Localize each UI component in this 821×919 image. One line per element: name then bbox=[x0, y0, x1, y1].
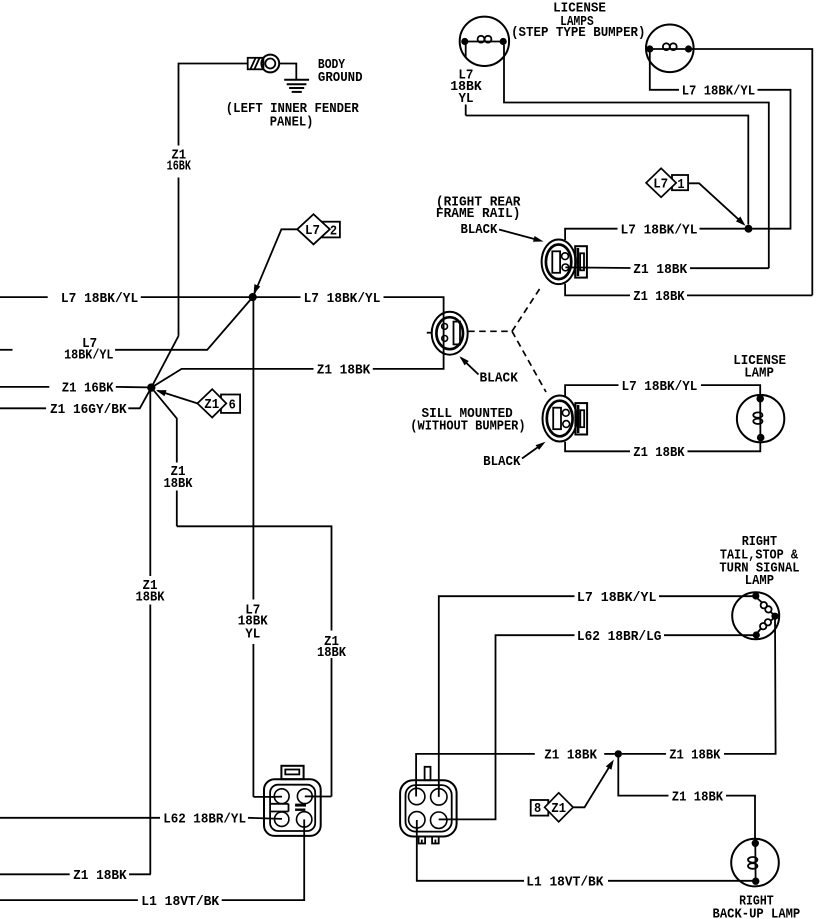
wire Z1 18BK left of splice bbox=[604, 753, 615, 755]
svg-text:18BK: 18BK bbox=[317, 645, 347, 661]
svg-text:L7 18BK/YL: L7 18BK/YL bbox=[304, 291, 381, 307]
wire L7 18BK/YL to connector (black) bbox=[384, 297, 444, 312]
connector symbol Z1>6 bbox=[197, 389, 240, 417]
connector sill mounted (oval 2-pin) bbox=[543, 396, 588, 442]
wire L7 18BK YL into 4-way connector left top pin bbox=[253, 796, 282, 798]
connector in-line (black, middle) oval 2-pin mirrored bbox=[427, 312, 468, 355]
wire L7 18BK/YL from turn signal lamp to left bbox=[659, 595, 753, 597]
arrow from BLACK to right rear frame rail connector bbox=[499, 230, 544, 242]
svg-text:Z1 18BK: Z1 18BK bbox=[633, 289, 685, 305]
svg-text:L7: L7 bbox=[653, 177, 668, 193]
label Z1 18BK on third vertical bbox=[317, 634, 347, 661]
wire stub Z1 into C2 top-left pin bbox=[415, 786, 417, 797]
lamp license left (step type bumper) bbox=[460, 17, 509, 66]
svg-text:Z1 18BK: Z1 18BK bbox=[73, 868, 127, 884]
wire L7 from left lamp across to right and down to splice bbox=[466, 116, 749, 225]
lamp license (rear) bbox=[737, 395, 784, 442]
label RIGHT TAIL,STOP & TURN SIGNAL LAMP bbox=[719, 534, 799, 589]
svg-text:16BK: 16BK bbox=[167, 159, 192, 175]
wire L62 18BR/LG from turn signal lamp bottom bbox=[664, 634, 754, 636]
svg-text:18BK: 18BK bbox=[136, 590, 166, 606]
svg-text:(STEP TYPE BUMPER): (STEP TYPE BUMPER) bbox=[511, 25, 645, 41]
svg-text:LAMP: LAMP bbox=[745, 573, 774, 589]
wire Z1 18BK to right edge vertical bbox=[687, 294, 812, 296]
svg-text:GROUND: GROUND bbox=[318, 70, 363, 86]
wire Z1 16BK vertical from body ground bbox=[179, 64, 248, 336]
wire Z1 18BK from splice down then right bbox=[618, 757, 668, 796]
label Z1 18BK on second vertical bbox=[164, 464, 194, 492]
wire L1 18VT/BK from connector bottom left pin bbox=[417, 820, 524, 881]
wire L7 18BK/YL 2-line label branch from left bbox=[0, 349, 13, 351]
label (LEFT INNER FENDER PANEL) bbox=[226, 101, 360, 130]
label Z1 18BK on vertical wire bbox=[136, 578, 166, 606]
wire stub L7 into C1 top-left pin bbox=[272, 796, 282, 798]
wire L7 18BK/YL from connector top bbox=[565, 229, 617, 240]
dashed lead up to right rear frame rail connector bbox=[512, 286, 542, 331]
wire L1 18VT/BK from C1 bottom-right pin down bbox=[222, 819, 305, 900]
wire L7 18BK/YL diagonal up to splice bbox=[115, 297, 253, 350]
svg-text:L62 18BR/LG: L62 18BR/LG bbox=[577, 629, 662, 645]
wire Z1 18BK from sill connector bottom bbox=[565, 442, 630, 452]
svg-text:Z1 18BK: Z1 18BK bbox=[633, 445, 685, 461]
wire L7 18BK/YL from right lamp left pin bbox=[650, 52, 679, 90]
wire L62 18BR/YL left horizontal bbox=[0, 817, 160, 819]
connector symbol 8<Z1 bbox=[531, 793, 573, 822]
svg-text:Z1 18BK: Z1 18BK bbox=[317, 363, 371, 379]
arrow from 8<Z1 to splice dot bbox=[573, 760, 614, 808]
svg-text:18BK: 18BK bbox=[164, 476, 194, 492]
svg-text:Z1 16BK: Z1 16BK bbox=[62, 381, 114, 397]
wire L7 18BK/YL right of splice bbox=[257, 296, 301, 298]
wire from connector L7>2 to splice on L7 18BK/YL bbox=[254, 229, 298, 294]
svg-text:LAMP: LAMP bbox=[744, 365, 774, 381]
svg-text:L7: L7 bbox=[305, 223, 320, 239]
svg-text:Z1: Z1 bbox=[204, 397, 219, 413]
wire L1 18VT/BK from 4-way connector to back-up lamp bbox=[608, 880, 754, 882]
wire stub L7 into C2 top-right pin bbox=[438, 786, 440, 797]
wire stub L1 from C2 bottom-left pin bbox=[416, 820, 418, 831]
svg-text:18BK/YL: 18BK/YL bbox=[64, 348, 113, 364]
wire Z1 18BK to back-up lamp bbox=[726, 796, 755, 844]
svg-text:6: 6 bbox=[229, 397, 236, 413]
wire L62 18BR/YL into C1 bottom-left pin bbox=[248, 818, 282, 819]
svg-text:L1 18VT/BK: L1 18VT/BK bbox=[526, 875, 604, 891]
connector symbol L7>1 bbox=[646, 168, 688, 197]
arrow from BLACK to middle connector bbox=[460, 356, 479, 374]
wire Z1 18BK bottom left horizontal bbox=[129, 873, 151, 875]
wire Z1 18BK jog right and down bbox=[177, 526, 332, 796]
wire Z1 18BK into 4-way connector right top pin bbox=[305, 796, 332, 798]
svg-text:PANEL): PANEL) bbox=[270, 114, 314, 130]
svg-text:BLACK: BLACK bbox=[461, 222, 498, 238]
wire Z1 16GY/BK left horizontal bbox=[0, 407, 46, 409]
label RIGHT BACK-UP LAMP bbox=[713, 893, 801, 919]
svg-text:Z1 16GY/BK: Z1 16GY/BK bbox=[50, 402, 127, 418]
wire Z1 18BK from connector middle pin bbox=[565, 266, 630, 269]
splice junction dot Z1 bbox=[147, 383, 155, 391]
wire L7 18BK YL from left lamp down bbox=[465, 44, 467, 116]
svg-text:Z1 18BK: Z1 18BK bbox=[544, 748, 597, 764]
splice dot on L7 18BK/YL bbox=[249, 293, 257, 301]
wire L7 18BK/YL from sill connector top bbox=[565, 385, 618, 396]
wire Z1 18BK from turn signal lamp right pin down bbox=[724, 616, 776, 754]
svg-text:Z1 18BK: Z1 18BK bbox=[672, 789, 724, 805]
wire stub L62 into C2 bottom-right pin bbox=[439, 818, 448, 820]
dashed lead down to sill mounted connector bbox=[512, 331, 546, 392]
svg-text:L7 18BK/YL: L7 18BK/YL bbox=[577, 590, 657, 606]
wire L7 18BK/YL down to 4-way connector bbox=[439, 596, 575, 797]
wire L7 18BK/YL horizontal (left) bbox=[0, 296, 48, 298]
wire Z1 16GY/BK diagonal into splice bbox=[128, 388, 151, 409]
wire Z1 16BK diagonal into splice junction bbox=[151, 336, 178, 388]
label L7 18BK YL (three lines) bbox=[450, 68, 482, 108]
svg-text:BACK-UP LAMP: BACK-UP LAMP bbox=[713, 906, 801, 919]
wire L7 18BK/YL to splice bbox=[141, 296, 249, 298]
wire from ring terminal to ground symbol bbox=[279, 64, 296, 80]
splice dot Z1 18BK bbox=[615, 750, 622, 757]
arrow from BLACK to sill connector bbox=[522, 442, 546, 459]
ground symbol (body ground, left inner fender panel) bbox=[284, 80, 309, 92]
wire Z1 from left lamp right pin across and down bbox=[504, 45, 769, 268]
wire Z1 16BK into splice bbox=[116, 386, 149, 389]
ring terminal (eyelet) at body ground bbox=[248, 55, 279, 73]
svg-text:Z1 18BK: Z1 18BK bbox=[669, 748, 721, 764]
label SILL MOUNTED (WITHOUT BUMPER) bbox=[410, 406, 525, 434]
lamp right tail stop turn signal bbox=[732, 592, 779, 639]
lamp license right (step type bumper) bbox=[646, 25, 694, 73]
label LICENSE LAMP bbox=[733, 353, 786, 381]
svg-text:BLACK: BLACK bbox=[480, 370, 519, 386]
connector right rear frame rail (oval 2-pin) bbox=[542, 239, 587, 284]
wire L7 18BK/YL to license lamp bbox=[701, 385, 760, 396]
label BODY GROUND bbox=[318, 57, 363, 86]
dashed lead from middle connector bbox=[468, 330, 512, 332]
svg-text:8: 8 bbox=[534, 801, 541, 817]
label L7 18BK YL on vertical wire bbox=[238, 602, 269, 642]
wire L7 18BK/YL down to junction line bbox=[753, 90, 791, 229]
wire Z1 18BK into 4-way connector top left pin bbox=[416, 754, 535, 797]
svg-text:L7 18BK/YL: L7 18BK/YL bbox=[61, 291, 138, 307]
lamp right back-up bbox=[731, 839, 779, 887]
svg-text:L7 18BK/YL: L7 18BK/YL bbox=[682, 84, 755, 100]
wire L62 18BR/LG down and into connector pin bbox=[439, 635, 575, 819]
svg-text:L7 18BK/YL: L7 18BK/YL bbox=[622, 379, 698, 395]
svg-text:Z1: Z1 bbox=[551, 801, 566, 817]
wire Z1 from right lamp right pin across right edge down bbox=[692, 49, 812, 295]
wire Z1 18BK to left edge bbox=[0, 873, 70, 875]
svg-text:L62 18BR/YL: L62 18BR/YL bbox=[163, 812, 246, 828]
svg-text:YL: YL bbox=[459, 91, 474, 107]
label L7 18BK/YL (two lines) bbox=[64, 336, 113, 364]
splice dot L7 18BK/YL bbox=[745, 225, 753, 233]
svg-text:Z1 18BK: Z1 18BK bbox=[633, 262, 687, 278]
wire Z1 18BK bends up at right bbox=[690, 267, 769, 269]
wire Z1 16BK left horizontal bbox=[0, 386, 49, 388]
svg-text:BLACK: BLACK bbox=[483, 454, 521, 470]
arrow from Z1>6 to splice bbox=[156, 390, 197, 403]
svg-text:(WITHOUT BUMPER): (WITHOUT BUMPER) bbox=[410, 418, 525, 434]
svg-text:L7 18BK/YL: L7 18BK/YL bbox=[621, 222, 698, 238]
label (RIGHT REAR FRAME RAIL) BLACK bbox=[436, 195, 521, 238]
wire Z1 18BK to connector (black) bbox=[373, 354, 444, 369]
wire Z1 18BK from connector bottom bbox=[565, 284, 630, 296]
arrow from L7>1 to splice dot bbox=[688, 183, 745, 225]
wire Z1 18BK to splice dot bbox=[622, 753, 666, 755]
wire vertical L7 18BK YL from splice down to connector bbox=[252, 301, 254, 797]
wire Z1 18BK splice down left vertical bbox=[149, 390, 151, 874]
svg-text:L1 18VT/BK: L1 18VT/BK bbox=[141, 894, 219, 910]
wire Z1 18BK to license lamp bottom bbox=[688, 442, 761, 452]
wire L1 18VT/BK to left edge bbox=[0, 899, 138, 901]
wire Z1 18BK splice diagonal down to second vertical bbox=[151, 388, 177, 527]
svg-text:FRAME RAIL): FRAME RAIL) bbox=[436, 206, 521, 222]
wire stub Z1 into C1 top-right pin bbox=[305, 795, 314, 797]
label Z1 16BK on vertical wire bbox=[167, 148, 192, 175]
wire L7 18BK/YL into splice dot bbox=[700, 228, 746, 230]
wire Z1 18BK from splice up-right bbox=[151, 369, 313, 388]
svg-text:1: 1 bbox=[677, 177, 684, 193]
svg-text:YL: YL bbox=[245, 627, 260, 643]
connector symbol L7>2 bbox=[297, 214, 340, 244]
label LICENSE LAMPS (STEP TYPE BUMPER) bbox=[511, 1, 645, 41]
connector 4-way C2 (right) bbox=[400, 767, 457, 844]
svg-text:2: 2 bbox=[330, 223, 337, 239]
connector 4-way C1 (left) bbox=[264, 766, 321, 836]
